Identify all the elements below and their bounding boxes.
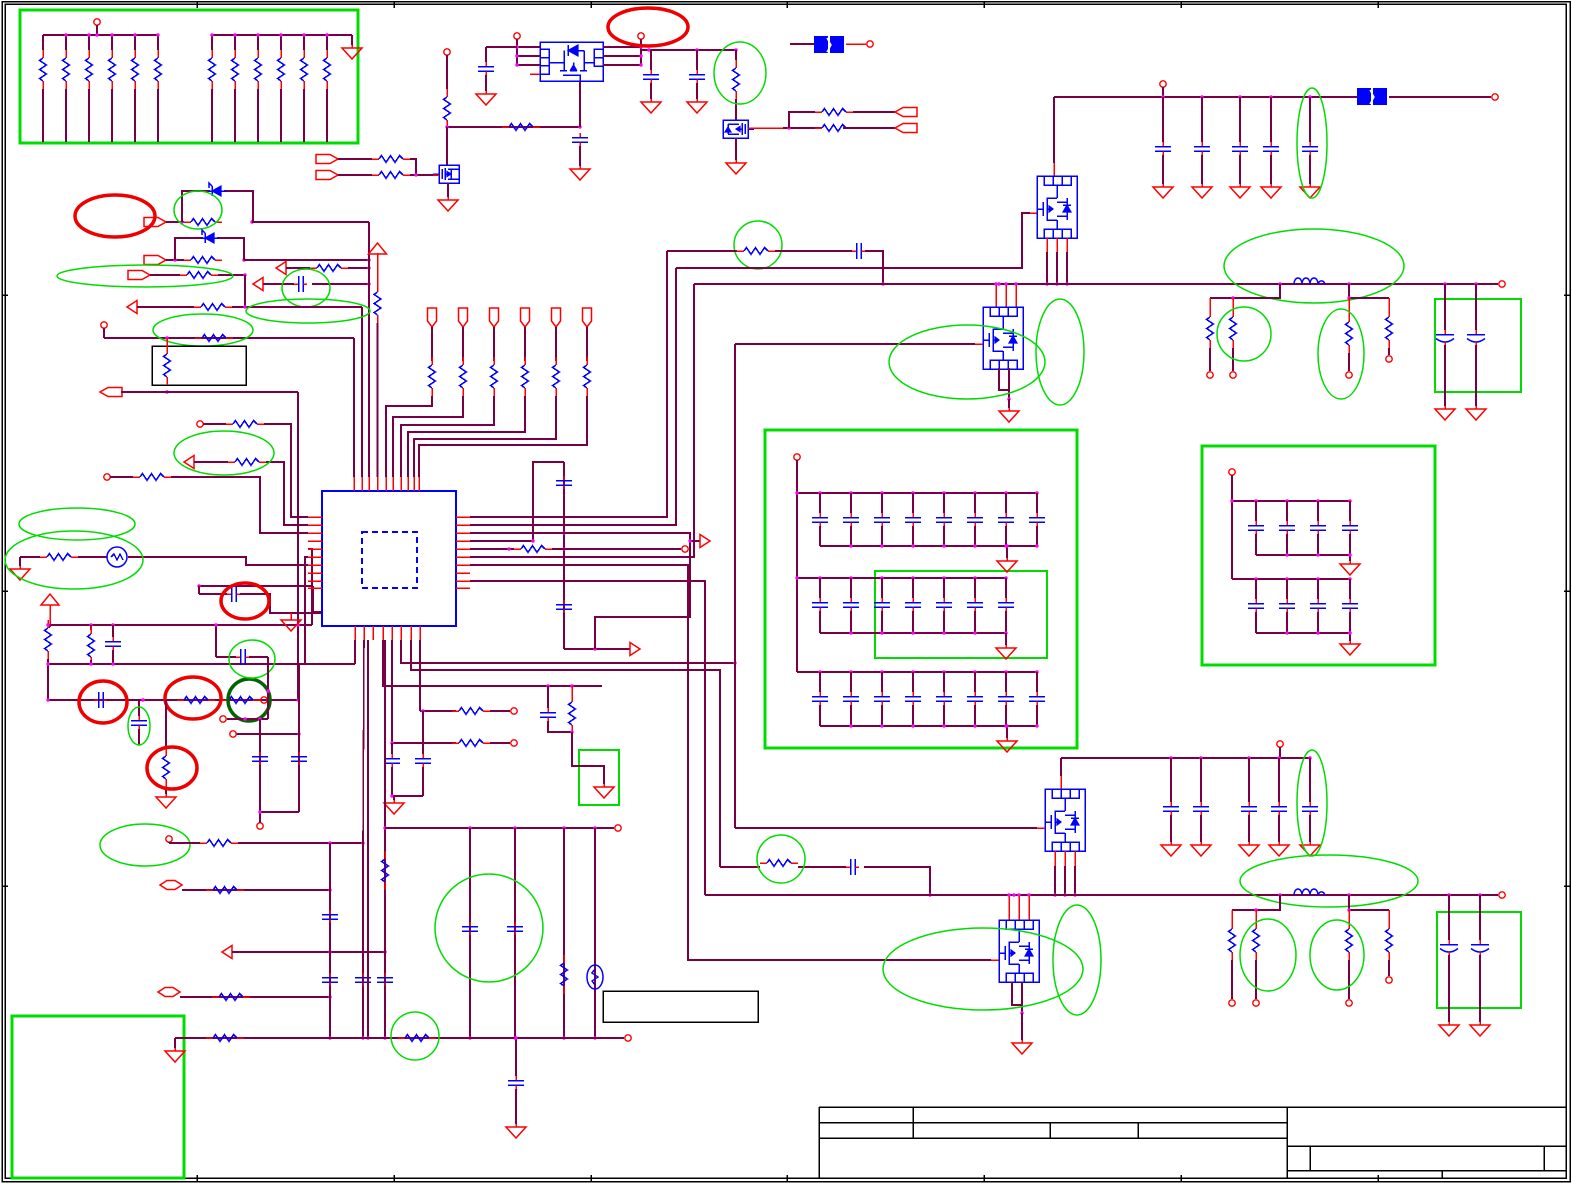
wire R12 bottom [326, 89, 328, 142]
node MB1-0 [818, 491, 821, 494]
wire TP2 b [393, 396, 463, 477]
resistor R3 [86, 50, 93, 89]
node N1 [445, 125, 448, 128]
ground Q5 [999, 408, 1019, 422]
wire OCB1 a [1479, 895, 1481, 940]
wire C7 tap [198, 586, 200, 594]
capacitor C64 [252, 752, 268, 765]
wire C43 a [1255, 501, 1257, 521]
markup ellipse dark-green R35 [228, 679, 270, 721]
wire fb3 [1232, 895, 1280, 910]
wire R27 top [166, 338, 168, 348]
wire C60 stub [515, 1038, 517, 1076]
wire C14 stub [1201, 97, 1203, 142]
node Q6s1075 [1073, 893, 1076, 896]
wire C28 a [819, 578, 821, 598]
wire C2 branch [486, 46, 517, 48]
pin P11 [1160, 81, 1166, 87]
pin P26 [1277, 741, 1283, 747]
pin P18 [794, 454, 800, 460]
wire Q4 src b 1067 [1066, 252, 1068, 284]
node MB1-2 [880, 491, 883, 494]
wire R3 bottom [88, 89, 90, 142]
wire row260 [244, 259, 369, 261]
node N15 [180, 220, 183, 223]
wire diode loop2 [175, 238, 203, 260]
wire Q6 gate [1037, 827, 1045, 829]
capacitor C61 [1163, 802, 1179, 815]
resistor R56 [398, 1035, 436, 1042]
node N2 [578, 125, 581, 128]
node Q7d1029 [1027, 893, 1030, 896]
node MB2-5 [973, 576, 976, 579]
port flag IN1 [316, 155, 338, 164]
node N70 [468, 826, 471, 829]
node N21 [367, 282, 370, 285]
wire R52 stub [571, 686, 573, 698]
capacitor C6 [105, 637, 121, 650]
wire Q5 gate stub [975, 343, 983, 345]
wire R2 bottom [65, 89, 67, 142]
wire row307b [232, 306, 362, 308]
resistor R6 [155, 50, 162, 89]
inductor L1 [1294, 278, 1325, 284]
pin P23 [257, 823, 263, 829]
capacitor C46 [1342, 521, 1358, 534]
capacitor C4 [689, 70, 705, 83]
capacitor C29 [843, 598, 859, 611]
wire Q6 src b 1075 [1074, 866, 1076, 895]
capacitor C53 [540, 708, 556, 721]
transistor Q1 (dual MOSFET block) [540, 42, 603, 81]
node N45 [1474, 282, 1477, 285]
port flag TP1 [428, 308, 437, 327]
wire fb4 [1349, 895, 1389, 910]
capacitor C35 [812, 692, 828, 705]
node MB2-0 [818, 576, 821, 579]
wire A1 [667, 250, 737, 252]
wire R5 top [134, 35, 136, 50]
resistor R49 [452, 708, 490, 715]
node N60 [361, 841, 364, 844]
node N37b [562, 531, 565, 534]
wire MB bus3b [820, 725, 1037, 727]
wire fb3r1 [1231, 910, 1233, 925]
node MB3b-3 [911, 724, 914, 727]
wire Q6 src b 1055 [1054, 866, 1056, 895]
wire C24 a [943, 493, 945, 513]
wire Q3 gate [748, 127, 783, 129]
ground Q3 [726, 160, 746, 174]
wire p525 up [470, 268, 676, 525]
wire C40 b [974, 705, 976, 726]
wire R12 top [326, 35, 328, 50]
wire C65 stub [1309, 758, 1311, 802]
wire row711 [420, 710, 456, 712]
node MB3b-5 [973, 724, 976, 727]
wire col595 [594, 828, 596, 1038]
wire Q5 gnd [1008, 399, 1010, 408]
wire row477a [110, 476, 133, 478]
wire bus828 [385, 827, 614, 829]
node MB2-0 [795, 576, 798, 579]
wire p549b [552, 548, 681, 550]
wire P22 stub [168, 842, 170, 843]
node N90 [243, 717, 246, 720]
wire row556c [128, 557, 308, 565]
port flag TP4 [521, 308, 530, 327]
wire C7 a [199, 593, 227, 595]
wire conn1 left [790, 43, 814, 45]
capacitor C28 [812, 598, 828, 611]
node bankA-3 [110, 33, 113, 36]
capacitor C67 (polarized) [1471, 940, 1489, 956]
wire P2 stub [446, 55, 448, 89]
IC U1 right pins [456, 516, 470, 518]
wire C25 b [974, 526, 976, 546]
node TRC1 [1200, 95, 1203, 98]
node bankB-0 [210, 33, 213, 36]
wire R2 top [65, 35, 67, 50]
wire C4 gnd [696, 83, 698, 99]
capacitor C39 [936, 692, 952, 705]
node RB1g [1348, 553, 1351, 556]
node N51 [390, 794, 393, 797]
wire p549a [470, 548, 514, 550]
wire C27 a [1036, 493, 1038, 513]
capacitor C52 (series) [846, 859, 859, 875]
wire R36 top [165, 700, 167, 748]
node MB1-3 [911, 491, 914, 494]
node MB3b-4 [942, 724, 945, 727]
wire C22 a [881, 493, 883, 513]
node Q7d1019 [1017, 893, 1020, 896]
capacitor C48 [1279, 599, 1295, 612]
wire C33 a [974, 578, 976, 598]
wire p557 up [470, 284, 694, 557]
wire MB bus3t [797, 671, 1037, 673]
node Q4s1047 [1045, 282, 1048, 285]
wire C38 a [912, 672, 914, 692]
wire C29 b [850, 611, 852, 633]
node MB1b-2 [880, 544, 883, 547]
pin P2 [444, 49, 450, 55]
wire Q1 l3 [517, 64, 540, 66]
wire C1 gnd [579, 146, 581, 166]
wire C35 b [819, 705, 821, 726]
wire C53 b [548, 721, 572, 732]
resistor R47 [1346, 314, 1353, 353]
wire R9 bottom [257, 89, 259, 142]
node MB2b-4 [942, 631, 945, 634]
node Q4s1057 [1055, 282, 1058, 285]
wire h734 [236, 733, 299, 735]
wire MB bus1b [820, 545, 1037, 547]
resistor R11 [301, 50, 308, 89]
ground N51 [384, 800, 404, 814]
wire IN2 [338, 174, 372, 176]
node N87 [1347, 908, 1350, 911]
wire Q4 src b 1047 [1046, 252, 1048, 284]
markup ellipse red A [608, 8, 688, 46]
node N89 [266, 689, 269, 692]
resistor R27 [164, 346, 171, 385]
wire p411 [411, 640, 720, 867]
wire C44 b [1286, 534, 1288, 555]
wire R10 bottom [280, 89, 282, 142]
pin P30 [1346, 1000, 1352, 1006]
wire row338 [104, 337, 354, 339]
wire C28 b [819, 611, 821, 633]
capacitor C19 (polarized) [1467, 330, 1485, 346]
wire row424a [203, 423, 226, 425]
resistor R32 [45, 620, 52, 659]
wire C6 stub [112, 625, 114, 637]
markup ellipse green D1 [174, 191, 222, 229]
node RB1-2 [1316, 499, 1319, 502]
wire U1 p541 U-link [470, 462, 564, 541]
node RB2b-2 [1316, 631, 1319, 634]
capacitor C26 [998, 513, 1014, 526]
annotation box (bottom-left empty) [12, 1016, 184, 1178]
wire R33 b [90, 660, 92, 664]
node N38 [507, 547, 510, 550]
wire MB bus1t [797, 492, 1037, 494]
wire col363 [363, 640, 364, 1038]
wire Q5 src2 [1008, 368, 1010, 399]
wire R6 bottom [157, 89, 159, 142]
node bankB-3 [279, 33, 282, 36]
wire C25 a [974, 493, 976, 513]
connector J2 (inter-sheet) [1357, 88, 1387, 105]
node N18 [242, 258, 245, 261]
diode D2 [201, 230, 219, 243]
markup ellipse red R34 [165, 677, 221, 719]
node N63 [383, 950, 386, 953]
transistor Q7 (low-side MOSFET) [999, 920, 1039, 982]
wire J2 out [1389, 96, 1491, 98]
wire pin549 link [308, 549, 312, 625]
capacitor C60 [508, 1076, 524, 1089]
resistor R43 [514, 546, 552, 553]
resistor R17 [733, 60, 740, 99]
capacitor C56 [355, 973, 371, 986]
node N63b [383, 1036, 386, 1039]
ground RB2 [1340, 641, 1360, 655]
node N42 [1278, 282, 1281, 285]
wire C63 stub [1248, 758, 1250, 802]
pin P6 [101, 322, 107, 328]
node MB1b-4 [942, 544, 945, 547]
markup ellipse green R56 [391, 1012, 439, 1060]
wire fb4r1 [1348, 910, 1350, 925]
wire OCB0 b [1448, 955, 1450, 1022]
ground C17 [1300, 184, 1320, 198]
markup ellipse green R51 [757, 835, 805, 883]
wire Q5 gate row [735, 343, 975, 345]
wire TP1 a [431, 327, 433, 361]
node N20 [367, 266, 370, 269]
wire C63 gnd [1248, 815, 1250, 842]
node N26 [46, 623, 49, 626]
wire diode loop1b [224, 191, 253, 222]
ground U1b [281, 617, 301, 631]
wire C47 a [1255, 579, 1257, 599]
capacitor C63 (series) [236, 649, 249, 665]
node N3 [414, 173, 417, 176]
node N11 [695, 48, 698, 51]
node N31 [46, 662, 49, 665]
node N59 [328, 841, 331, 844]
wire C23 a [912, 493, 914, 513]
wire row586 down [313, 586, 322, 612]
node N5 [515, 54, 518, 57]
wire TP5 b [414, 396, 556, 477]
node RB1-3 [1348, 499, 1351, 502]
node MB3-0 [818, 670, 821, 673]
wire bank B gnd stub [351, 35, 353, 45]
resistor R20 [184, 219, 222, 226]
wire bus703 [48, 699, 298, 701]
node N91 [258, 717, 261, 720]
capacitor C36 [843, 692, 859, 705]
node RB2g [1348, 631, 1351, 634]
resistor R58 [1253, 921, 1260, 960]
net stub arrow C [127, 301, 137, 314]
wire p392 [391, 640, 393, 743]
wire P26 stub [1279, 747, 1281, 758]
resistor R60 [1386, 921, 1393, 960]
wire IN4 [166, 259, 184, 261]
resistor R37 [429, 357, 436, 396]
node MB3b-7 [1035, 724, 1038, 727]
wire bank A top bus [43, 34, 158, 36]
wire TP1 b [386, 396, 432, 477]
node Q5d1006 [1004, 282, 1007, 285]
wire C37 a [881, 672, 883, 692]
wire C47 b [1255, 612, 1257, 633]
node N69 [258, 810, 261, 813]
wire TR switch rail [694, 283, 1498, 285]
capacitor C43 [1248, 521, 1264, 534]
capacitor C17 [1302, 142, 1318, 155]
wire C7 b [240, 594, 322, 613]
node MB1b-7 [1035, 544, 1038, 547]
wire Q3 gnd [735, 138, 737, 160]
pin P25 [625, 1035, 631, 1041]
port flag TP3 [490, 308, 499, 327]
node MB3-7 [1035, 670, 1038, 673]
markup ellipse green row307 [246, 299, 370, 323]
wire p383 [383, 640, 602, 686]
wire Q7 gnd [1021, 1013, 1023, 1040]
wire Q6 src 1075 [1074, 851, 1076, 866]
wire row268 [286, 267, 310, 269]
wire C23 b [912, 526, 914, 546]
annotation box (top output caps) [1435, 299, 1521, 392]
node N68 [366, 1036, 369, 1039]
pin P33 [220, 716, 226, 722]
wire Q4 src 1067 [1066, 238, 1068, 252]
wire C17 gnd [1309, 155, 1311, 184]
wire fb2r1b [1348, 353, 1350, 371]
resistor R28 [226, 421, 264, 428]
node N37a [531, 539, 534, 542]
capacitor C45 [1310, 521, 1326, 534]
wire MB gnd2 stub [1005, 633, 1007, 645]
IC U1 bottom pins [354, 626, 356, 640]
resistor R14 [502, 124, 540, 131]
port flag IN4 [144, 256, 166, 265]
node MB2-6 [1004, 576, 1007, 579]
capacitor C1 [572, 133, 588, 146]
node N64 [328, 995, 331, 998]
resistor R34 [177, 697, 215, 704]
node N62 [328, 950, 331, 953]
markup ellipse green fb1 [1217, 307, 1271, 361]
wire R6 top [157, 35, 159, 50]
ground Q7 [1012, 1040, 1032, 1054]
title block [819, 1106, 1566, 1108]
wire Q1 lbus [516, 47, 518, 65]
wire row392 [121, 391, 298, 393]
wire Q5 d 996 [995, 284, 997, 307]
node N56 [570, 730, 573, 733]
capacitor C25 [967, 513, 983, 526]
wire bus369 [368, 222, 370, 477]
node BRC3 [1277, 756, 1280, 759]
node N52 [928, 893, 931, 896]
ground C4 [687, 99, 707, 113]
transistor Q3 (small MOSFET) [723, 120, 754, 138]
resistor R15 [372, 156, 410, 163]
wire A3 [865, 251, 883, 284]
node N47 [1231, 296, 1234, 299]
wire bus354 [353, 338, 355, 477]
node N39 [881, 282, 884, 285]
resistor R2 [63, 50, 70, 89]
node bankA-2 [87, 33, 90, 36]
pin P7 [197, 421, 203, 427]
capacitor C44 [1279, 521, 1295, 534]
node N46 [1007, 397, 1010, 400]
node MB1-5 [973, 491, 976, 494]
wire p401 [401, 640, 735, 663]
wire row284b [312, 283, 369, 285]
wire Q6 src b 1065 [1064, 866, 1066, 895]
wire C50 b [422, 767, 424, 796]
wire row460a [194, 461, 228, 463]
wire row460b [266, 462, 308, 525]
annotation box (pull-up resistor bank) [20, 10, 358, 143]
resistor R33 [88, 626, 95, 665]
wire fb3r2 [1255, 910, 1257, 925]
wire R8 bottom [234, 89, 236, 142]
port flag TP6 [583, 308, 592, 327]
wire Q7 d 1009 [1008, 895, 1010, 920]
wire BR input rail [1061, 757, 1310, 759]
wire h719 [227, 718, 268, 720]
node N29b [197, 584, 200, 587]
wire C27 b [1036, 526, 1038, 546]
wire row711b [490, 710, 510, 712]
markup ellipse green fb3 [1240, 919, 1296, 991]
wire fb3r2b [1255, 960, 1257, 999]
wire C11 out [564, 648, 630, 650]
wire bus296 [297, 392, 299, 700]
markup ellipse green row338 [153, 314, 253, 346]
resistor R19 [815, 125, 853, 132]
